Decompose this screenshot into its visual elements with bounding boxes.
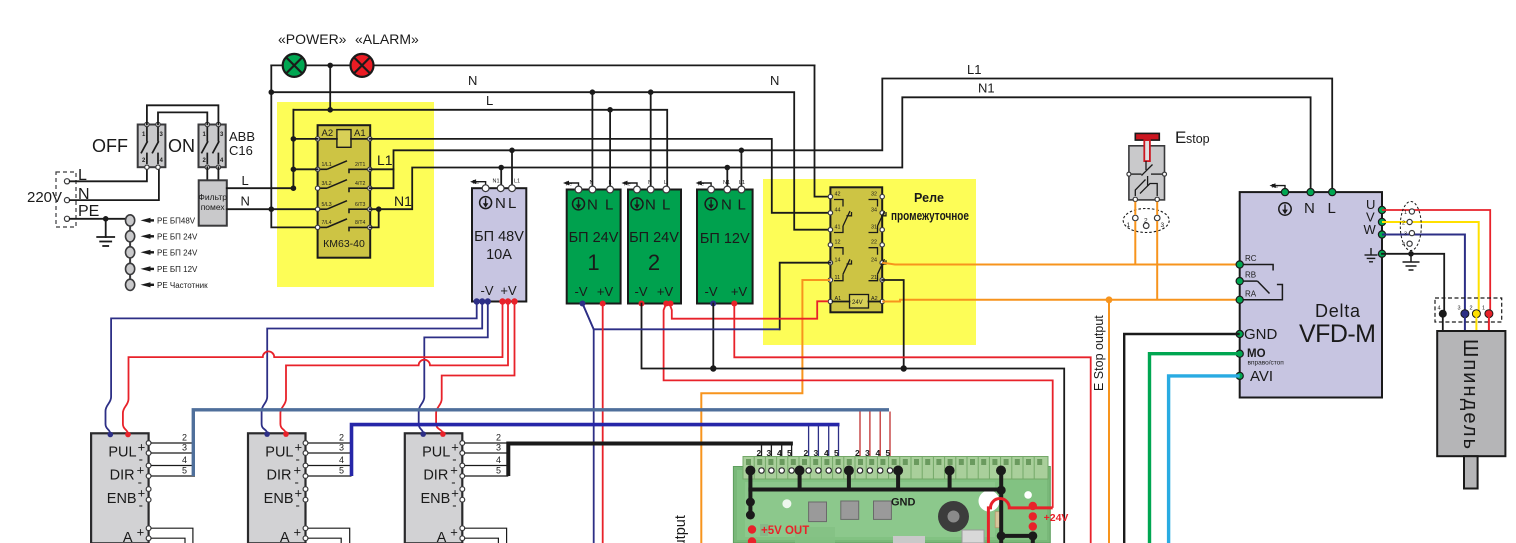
stepper driver U1 (axis X) — [91, 433, 151, 543]
svg-text:+24V: +24V — [1044, 512, 1069, 524]
junction N bus start — [269, 89, 275, 95]
red wire PSU24-2 +V to PCB +24V — [664, 304, 1053, 508]
terminal PS1 L — [509, 185, 516, 192]
svg-text:РЕ БП 24V: РЕ БП 24V — [157, 249, 198, 258]
terminal strip — [743, 457, 1048, 480]
svg-text:N1: N1 — [394, 193, 412, 209]
svg-text:-V: -V — [575, 284, 588, 299]
svg-text:VFD-M: VFD-M — [1299, 320, 1376, 348]
svg-text:вправо/стоп: вправо/стоп — [1248, 360, 1285, 367]
svg-text:A1: A1 — [354, 128, 366, 139]
junction on L bus — [327, 107, 333, 113]
switch ON (ABB C16 breaker) — [168, 122, 255, 169]
highlight zone relay — [763, 179, 976, 345]
earth glyph inside — [1365, 248, 1378, 262]
svg-text:«ALARM»: «ALARM» — [355, 31, 419, 47]
svg-text:4: 4 — [1402, 242, 1405, 248]
svg-text:5: 5 — [182, 466, 187, 476]
lamp POWER green — [283, 54, 306, 77]
svg-text:2: 2 — [1144, 218, 1148, 225]
wire A1 coil to relay pin44 — [370, 139, 831, 213]
terminal PS1 N — [497, 185, 504, 192]
wire lamps horizontal — [271, 64, 814, 66]
stepper driver U2 (axis Y) — [248, 433, 308, 543]
highlight zone contactor — [277, 102, 434, 287]
svg-text:БП 12V: БП 12V — [700, 231, 750, 247]
internal relay contact — [1243, 265, 1282, 300]
svg-text:2: 2 — [648, 250, 660, 275]
svg-text:L: L — [1328, 200, 1336, 217]
orange wire estop output drop — [1108, 300, 1110, 543]
svg-text:+V: +V — [657, 284, 674, 299]
red wire PSU24-2 +V to relay A1 — [670, 301, 829, 318]
switch OFF — [92, 122, 165, 169]
svg-text:W: W — [1364, 222, 1377, 237]
wire crossover inner — [158, 112, 207, 124]
svg-text:E Stop output: E Stop output — [1092, 315, 1106, 391]
red wire PSU12 +V to right drop — [734, 304, 1090, 543]
svg-text:GND: GND — [1244, 326, 1278, 343]
+5V OUT red — [748, 525, 756, 533]
top terminals — [1281, 189, 1288, 196]
svg-text:Шпиндель: Шпиндель — [1459, 339, 1481, 449]
power supply PS3 (БП 24V #2) — [622, 180, 682, 307]
svg-text:+V: +V — [597, 284, 614, 299]
junction N filter — [269, 206, 275, 212]
svg-text:Реле: Реле — [914, 191, 944, 205]
UVW connector dashed ellipse — [1400, 202, 1421, 251]
svg-text:-V: -V — [705, 284, 718, 299]
svg-text:L: L — [486, 93, 493, 108]
svg-text:4: 4 — [1438, 306, 1441, 312]
spindle connector dashed box — [1435, 298, 1502, 322]
svg-text:41: 41 — [835, 225, 841, 231]
svg-text:1/L1: 1/L1 — [322, 162, 332, 168]
taps from L riser to contactor — [291, 136, 297, 142]
junction PSU12 -V — [710, 365, 716, 371]
wire V yellow — [1382, 222, 1479, 314]
terminal PE — [64, 216, 69, 221]
wire drops to controller pins 2-5 group2 — [809, 426, 839, 467]
svg-text:L1: L1 — [739, 180, 745, 186]
svg-text:A2: A2 — [322, 128, 334, 139]
wire AVI cyan — [1169, 376, 1240, 543]
junction L1 to PSU48 — [509, 148, 515, 154]
svg-text:6/T3: 6/T3 — [355, 202, 365, 208]
wire U red to spindle connector — [1382, 210, 1490, 314]
IC chip 3 — [874, 501, 892, 519]
svg-text:+5V OUT: +5V OUT — [761, 525, 809, 537]
svg-text:2: 2 — [339, 433, 344, 443]
red wire to driver1 — [123, 302, 503, 435]
svg-text:-V: -V — [635, 284, 648, 299]
svg-text:N: N — [645, 197, 656, 214]
svg-text:Delta: Delta — [1315, 301, 1361, 321]
power supply PS1 (БП 48V 10А) body — [470, 179, 526, 305]
svg-text:34: 34 — [871, 208, 877, 214]
toroid inductor — [938, 501, 969, 532]
svg-text:1: 1 — [1127, 222, 1131, 229]
svg-text:помех: помех — [201, 202, 226, 212]
coil — [337, 130, 351, 148]
wire ground black to connector — [1382, 254, 1444, 314]
contactor poles — [315, 161, 372, 232]
terminals PS1 +V — [499, 298, 505, 304]
wire relay21 to black bus — [882, 280, 904, 369]
relay K1 Реле промежуточное — [828, 187, 969, 312]
spindle body — [1437, 331, 1505, 456]
svg-text:4: 4 — [339, 455, 344, 465]
junction L1 to PSU12 — [739, 148, 745, 154]
power supply PS4 (БП 12V) — [696, 180, 753, 307]
svg-text:E Stop output: E Stop output — [673, 515, 689, 543]
wire 6T3 to 8T4 link — [370, 209, 379, 227]
terminals PS1 -V — [474, 298, 480, 304]
controller pin number labels — [757, 448, 891, 458]
svg-text:RB: RB — [1245, 271, 1256, 280]
svg-text:N: N — [241, 194, 250, 209]
svg-text:AVI: AVI — [1250, 368, 1273, 385]
red wire to driver2 (hump over driver3 navy) — [280, 302, 508, 435]
svg-text:7/L4: 7/L4 — [322, 220, 332, 226]
orange wire relay11 down-left — [701, 280, 830, 543]
svg-text:N: N — [770, 73, 779, 88]
emergency stop button SB1 — [1123, 128, 1209, 233]
svg-text:ON: ON — [168, 136, 195, 156]
relay K1 coil 24V — [850, 295, 869, 309]
svg-text:4: 4 — [182, 455, 187, 465]
svg-text:РЕ БП 12V: РЕ БП 12V — [157, 265, 198, 274]
controller PCB board — [733, 457, 1050, 543]
wire 4T2 riser — [370, 169, 394, 188]
svg-text:3: 3 — [496, 443, 501, 453]
noise filter — [198, 180, 227, 225]
svg-text:3: 3 — [1161, 222, 1165, 229]
svg-text:ABB: ABB — [229, 129, 255, 144]
wire drops to controller pins 2-5 group3 — [860, 412, 890, 468]
wire GND black — [1124, 334, 1240, 543]
PE ring chain — [126, 215, 135, 291]
junction between lamps — [327, 63, 333, 69]
junction N1 to PSU12 — [725, 165, 731, 171]
svg-text:N: N — [1304, 200, 1315, 217]
svg-text:2: 2 — [1470, 306, 1473, 312]
svg-text:14: 14 — [835, 258, 841, 264]
estop stem — [1144, 140, 1150, 161]
wire drops to controller pins 2-5 group1 — [762, 445, 792, 467]
relay K1 pins left 42 44 41 12 14 11 A1 — [828, 194, 832, 303]
svg-text:4/T2: 4/T2 — [355, 181, 365, 187]
svg-text:2: 2 — [1402, 221, 1405, 227]
ground symbol — [97, 219, 114, 246]
red wire to driver3 — [436, 302, 514, 435]
svg-text:Pe: Pe — [1272, 184, 1279, 190]
mounting hole small — [1024, 491, 1032, 499]
svg-text:БП 24V: БП 24V — [629, 230, 679, 246]
svg-text:RA: RA — [1245, 289, 1257, 298]
svg-text:промежуточное: промежуточное — [891, 209, 969, 223]
svg-text:«POWER»: «POWER» — [278, 31, 347, 47]
svg-text:2/T1: 2/T1 — [355, 162, 365, 168]
GND bus wiring on PCB — [748, 471, 1032, 543]
svg-text:N1: N1 — [978, 81, 995, 96]
junction earth — [1408, 251, 1414, 257]
black wire PSU24-2 -V to bus — [642, 304, 1065, 543]
navy wire PSU24-1 -V to relay pin14 riser — [583, 304, 780, 330]
svg-text:-V: -V — [481, 283, 494, 298]
svg-text:22: 22 — [871, 240, 877, 246]
svg-text:C16: C16 — [229, 143, 253, 158]
contactor KM63-40 — [315, 125, 372, 258]
estop body — [1129, 146, 1165, 200]
orange wire estop3 down — [1156, 202, 1158, 300]
relay K1 pin number labels — [835, 192, 878, 303]
wire bus driver U3 to controller (black) — [508, 444, 793, 477]
estop connector ellipse — [1123, 209, 1169, 233]
svg-text:RC: RC — [1245, 254, 1257, 263]
wire MO green — [1150, 354, 1240, 543]
svg-text:Pe: Pe — [624, 182, 631, 188]
svg-text:OFF: OFF — [92, 136, 128, 156]
svg-text:Фильтр: Фильтр — [198, 192, 227, 202]
wire N filter to contactor 5L3 — [227, 208, 318, 210]
terminal N — [64, 198, 69, 203]
wire N input — [70, 167, 159, 200]
navy wire to driver3 — [419, 302, 488, 435]
svg-text:L: L — [605, 197, 613, 214]
wire PE — [70, 218, 127, 220]
svg-text:32: 32 — [871, 192, 877, 198]
wire crossover outer — [147, 105, 219, 124]
svg-text:5: 5 — [496, 466, 501, 476]
svg-text:3: 3 — [1458, 306, 1461, 312]
svg-text:24: 24 — [871, 258, 877, 264]
svg-text:КМ63-40: КМ63-40 — [323, 238, 365, 250]
svg-text:1: 1 — [1482, 306, 1485, 312]
svg-text:L: L — [738, 197, 746, 214]
svg-text:5: 5 — [339, 466, 344, 476]
svg-text:РЕ БП 24V: РЕ БП 24V — [157, 233, 198, 242]
svg-text:N: N — [587, 197, 598, 214]
svg-text:РЕ Частотник: РЕ Частотник — [157, 281, 208, 290]
svg-text:5/L3: 5/L3 — [322, 202, 332, 208]
svg-text:220V: 220V — [27, 189, 62, 206]
wire PSU12 -V drop — [712, 304, 714, 369]
svg-text:Pe: Pe — [566, 182, 573, 188]
wire ABB to filter — [206, 167, 208, 180]
relay K1 contact symbols — [834, 200, 886, 281]
svg-text:8/T4: 8/T4 — [355, 220, 365, 226]
svg-text:stop: stop — [1186, 132, 1210, 146]
controller PCB pin dots — [745, 466, 1006, 476]
svg-text:L: L — [508, 195, 516, 212]
svg-text:E: E — [1175, 128, 1186, 147]
estop internal contacts — [1131, 161, 1162, 196]
navy wire to driver2 — [262, 302, 483, 435]
svg-text:РЕ БП48V: РЕ БП48V — [157, 217, 196, 226]
IC chip 2 — [841, 501, 859, 519]
svg-text:2: 2 — [182, 433, 187, 443]
junction 6T3 — [376, 206, 382, 212]
svg-text:L: L — [662, 197, 670, 214]
svg-text:L1: L1 — [967, 62, 981, 77]
junction N to PSU2 — [648, 89, 654, 95]
stepper driver U3 (axis Z) — [405, 433, 465, 543]
hole left — [782, 499, 791, 508]
svg-text:L1: L1 — [377, 152, 393, 168]
svg-text:L: L — [242, 173, 249, 188]
PE pigtail VFD — [1270, 183, 1286, 192]
svg-text:Pe: Pe — [473, 180, 480, 186]
svg-text:Pe: Pe — [698, 182, 705, 188]
relay K1 pins right 32 34 31 22 24 21 A2 — [880, 194, 884, 303]
wire lamp bus to relay pin42 — [815, 65, 831, 196]
wire L filter out with riser — [227, 110, 294, 188]
earth symbol below wire — [1403, 254, 1420, 270]
svg-text:42: 42 — [835, 192, 841, 198]
junction PE — [103, 216, 109, 222]
wire lamp junction down to L bus — [329, 65, 331, 109]
wire L1 from 2T1 to VFD L — [370, 79, 1332, 193]
IC chip 1 — [809, 502, 827, 522]
svg-text:24V: 24V — [852, 300, 863, 306]
wire L input — [70, 167, 147, 181]
wire N1 from 6T3 to VFD N — [379, 97, 1311, 209]
svg-text:БП 24V: БП 24V — [569, 230, 619, 246]
mounting hole — [979, 491, 1000, 512]
input dashed box — [56, 172, 76, 227]
svg-text:L1: L1 — [514, 179, 520, 185]
junction N to PSU1 — [590, 89, 596, 95]
power supply PS2 (БП 24V #1) — [563, 180, 621, 307]
svg-text:3/L2: 3/L2 — [322, 181, 332, 187]
svg-text:N: N — [648, 180, 652, 186]
wire bus driver U2 to controller (blue) — [352, 425, 840, 476]
svg-text:31: 31 — [871, 225, 877, 231]
junction L to PSU1 — [607, 107, 613, 113]
svg-text:+V: +V — [500, 283, 517, 298]
navy wire PSU24-1 -V drop to PCB — [583, 304, 594, 543]
svg-text:1: 1 — [1404, 210, 1407, 216]
junction estop output — [1106, 296, 1113, 303]
svg-text:N1: N1 — [493, 179, 500, 185]
small caps — [995, 512, 1002, 528]
svg-text:4: 4 — [496, 455, 501, 465]
PE pigtail arrow PS1 — [470, 179, 486, 188]
PS1 earth terminal symbol — [480, 197, 492, 209]
svg-text:3: 3 — [182, 443, 187, 453]
svg-text:44: 44 — [835, 208, 841, 214]
svg-text:MO: MO — [1247, 348, 1266, 360]
estop cap — [1135, 133, 1159, 140]
terminal PS1 PE — [482, 185, 489, 192]
svg-text:GND: GND — [891, 497, 916, 509]
terminal L — [64, 179, 69, 184]
VFD Delta box — [1236, 183, 1386, 397]
svg-text:12: 12 — [835, 240, 841, 246]
wire W navy — [1382, 235, 1465, 314]
svg-text:N: N — [468, 73, 477, 88]
svg-text:3: 3 — [339, 443, 344, 453]
svg-text:+V: +V — [731, 284, 748, 299]
svg-text:1: 1 — [587, 250, 599, 275]
junction N1 to PSU48 — [498, 165, 504, 171]
PE arrows and labels — [141, 217, 209, 290]
svg-text:N: N — [495, 195, 506, 212]
wire lamp left drop to N net — [271, 65, 317, 227]
svg-text:2: 2 — [496, 433, 501, 443]
svg-text:БП 48V: БП 48V — [474, 229, 524, 245]
svg-text:PE: PE — [78, 203, 99, 220]
junction relay21 on black bus — [901, 365, 907, 371]
svg-text:N: N — [590, 180, 594, 186]
orange wire relay24 to RC — [882, 263, 1239, 265]
svg-text:3: 3 — [1404, 232, 1407, 238]
driver U1 phase A wires — [151, 528, 193, 543]
driver U1 pin wires 2 3 4 5 — [151, 443, 195, 476]
wire relay pin14 from navy riser — [780, 263, 831, 330]
spindle shaft — [1464, 456, 1478, 488]
bright module — [962, 530, 984, 543]
earth circle symbol — [1279, 203, 1291, 215]
svg-text:L: L — [609, 180, 612, 186]
orange wire estop1 to VFD RC — [1134, 202, 1136, 265]
svg-text:N1: N1 — [723, 180, 730, 186]
connector stubs into spindle — [1442, 314, 1444, 331]
lamp ALARM red — [351, 54, 374, 77]
svg-text:L: L — [664, 180, 667, 186]
red wire PSU24-1 +V drop — [602, 304, 604, 543]
svg-text:10А: 10А — [486, 247, 512, 263]
+24V red — [1033, 506, 1053, 509]
driver U1 supply terminal dots — [108, 432, 114, 438]
orange wire relayA2 to VFD RA — [882, 300, 1239, 302]
navy wire to driver1 — [106, 302, 477, 435]
svg-text:N: N — [721, 197, 732, 214]
wire bus driver U1 to controller (steel blue) — [193, 410, 889, 476]
